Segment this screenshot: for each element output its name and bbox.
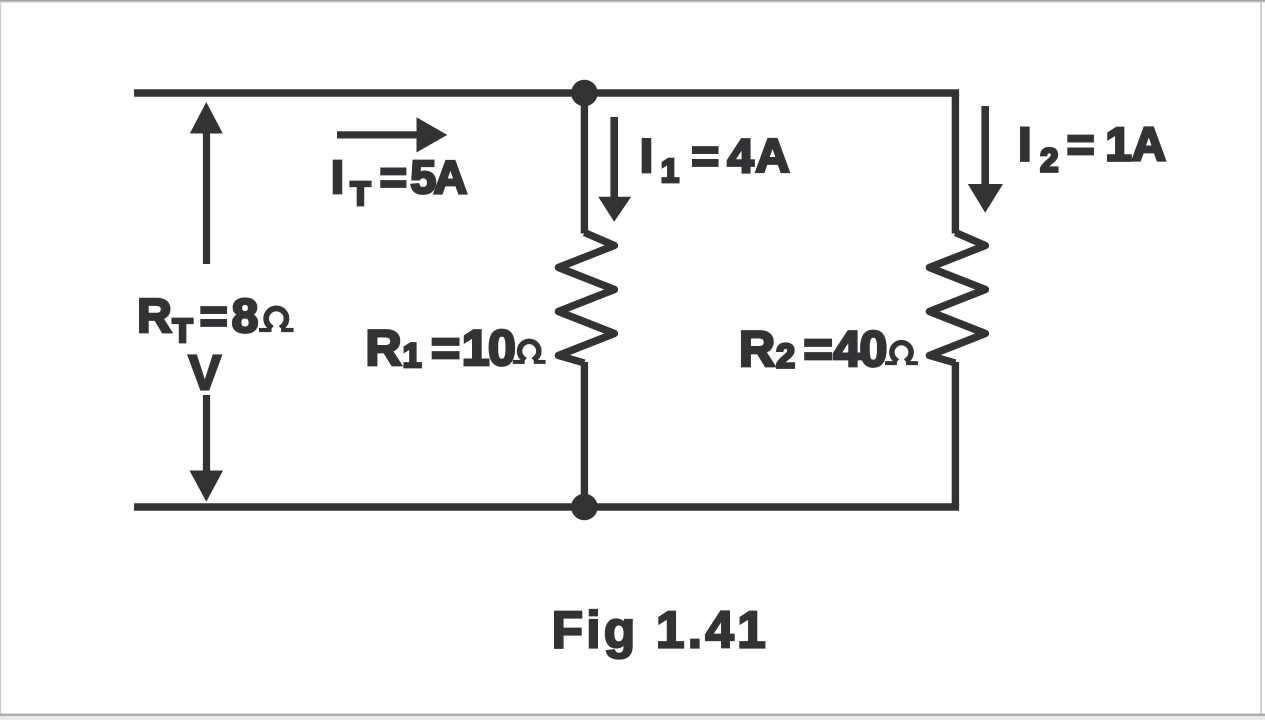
svg-text:I1=4A: I1=4A <box>640 130 790 189</box>
svg-text:R1=10: R1=10 <box>366 320 516 376</box>
label: ohm symbol of R2 value <box>885 343 918 365</box>
wire: top bus from left end to right corner <box>134 89 959 96</box>
svg-text:Fig 1.41: Fig 1.41 <box>552 601 769 659</box>
arrow: voltage arrow lower half (pointing down) <box>190 395 224 502</box>
resistor R1 (10 ohm) zigzag <box>558 233 614 364</box>
wire: middle branch lower segment <box>581 362 588 507</box>
wire: bottom bus <box>134 503 959 510</box>
svg-text:IT=5A: IT=5A <box>331 151 467 212</box>
arrow: branch current I1 (downward) <box>598 117 631 222</box>
arrow: total current IT (rightward) <box>337 117 447 152</box>
wire: middle branch upper segment <box>581 93 588 234</box>
label: ohm symbol of RT value <box>259 308 294 332</box>
svg-text:I2=1A: I2=1A <box>1018 118 1166 178</box>
resistor R2 (40 ohm) zigzag <box>929 233 985 364</box>
svg-text:V: V <box>188 345 221 400</box>
svg-text:R2=40: R2=40 <box>739 321 887 377</box>
label: ohm symbol of R1 value <box>513 341 546 363</box>
wire: right branch lower segment with bottom-right corner <box>952 362 959 507</box>
arrow: voltage arrow upper half (pointing up) <box>190 102 223 264</box>
wire: right branch upper segment with top-right corner <box>952 93 959 234</box>
arrow: branch current I2 (downward) <box>968 106 1003 213</box>
node: top junction dot <box>571 80 598 107</box>
svg-text:RT=8: RT=8 <box>137 290 258 349</box>
node: bottom junction dot <box>571 494 598 521</box>
